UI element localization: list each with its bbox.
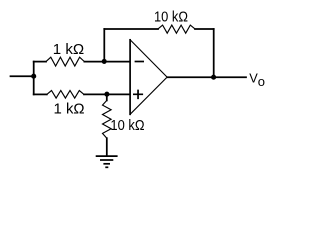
resistor 10 kΩ (feedback): [158, 25, 195, 33]
wire: input stub: [11, 75, 34, 77]
resistor 1 kΩ (inverting input branch): [46, 57, 84, 66]
ground: [96, 156, 118, 167]
resistor 1 kΩ (non-inverting input branch): [47, 91, 84, 99]
wire: output: [167, 76, 246, 78]
resistor 10 kΩ (non-inverting node to ground): [106, 94, 108, 100]
wire: top branch left lead: [34, 61, 46, 63]
op-amp triangle: [130, 40, 167, 115]
svg-text:10 kΩ: 10 kΩ: [154, 10, 188, 26]
wire: feedback top left lead: [104, 28, 158, 30]
wire: top branch right lead to op-amp inverting input: [84, 61, 130, 63]
svg-text:10 kΩ: 10 kΩ: [110, 118, 144, 134]
wire: bottom branch left lead: [34, 93, 47, 95]
junction dot: non-inverting input node: [104, 92, 109, 97]
wire: ground lead: [106, 138, 108, 156]
wire: feedback riser: [103, 29, 105, 62]
wire: bottom branch right lead to op-amp non-inverting input: [84, 93, 130, 95]
wire: feedback top right lead: [195, 28, 214, 30]
svg-text:o: o: [258, 74, 265, 89]
op-amp non-inverting input symbol (+): [133, 90, 143, 100]
junction dot: input node: [31, 74, 36, 79]
junction dot: output node: [211, 75, 216, 80]
wire: right vertical drop to output: [213, 29, 215, 77]
wire: left vertical split: [33, 62, 35, 95]
junction dot: inverting input node: [102, 59, 107, 64]
svg-text:1 kΩ: 1 kΩ: [53, 42, 85, 58]
svg-text:1 kΩ: 1 kΩ: [54, 102, 85, 118]
op-amp inverting input symbol (−): [135, 61, 144, 63]
